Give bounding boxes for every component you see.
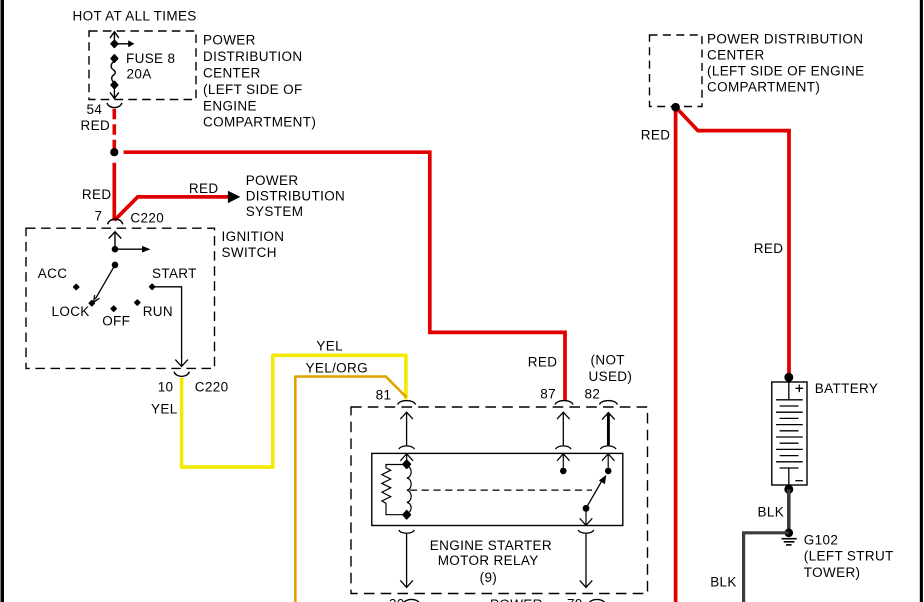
node: red junction dot — [110, 148, 118, 156]
svg-text:POWER DISTRIBUTION: POWER DISTRIBUTION — [707, 31, 863, 46]
svg-text:YEL/ORG: YEL/ORG — [306, 360, 368, 375]
wire: ignition branch arrow right — [115, 246, 150, 253]
svg-text:POWER: POWER — [203, 33, 256, 48]
svg-text:COMPARTMENT): COMPARTMENT) — [203, 115, 316, 130]
node: contact 82 dot — [605, 468, 612, 475]
node: contact 87 dot — [560, 468, 567, 475]
wire: ignition input stem with up arrow — [109, 232, 122, 249]
battery plates — [776, 400, 803, 468]
battery negative stub and minus sign — [789, 468, 803, 485]
svg-text:HOT AT ALL TIMES: HOT AT ALL TIMES — [73, 9, 197, 24]
svg-text:(LEFT SIDE OF: (LEFT SIDE OF — [203, 82, 303, 97]
wire: red main run to relay pin 87 — [124, 152, 565, 400]
wire: BLK branch to left and down — [744, 533, 789, 602]
connector 10 C220 (cup) — [174, 372, 189, 377]
pin 79 stem with down arrow — [580, 534, 593, 588]
contact OFF — [111, 306, 116, 311]
svg-text:54: 54 — [87, 102, 103, 117]
power distribution center box (right) — [650, 35, 703, 107]
pin 81 case terminal (flat hat) — [399, 446, 414, 449]
svg-text:30: 30 — [389, 597, 405, 602]
wire: branch arrow right inside PDC — [114, 40, 134, 47]
label POWER DISTRIBUTION CENTER (LEFT SIDE OF ENGINE COMPARTMENT) right — [707, 31, 865, 94]
relay coil (zigzag left + humps right) — [382, 465, 411, 515]
connector C220 (hat) — [108, 219, 123, 224]
pin 82 case terminal (flat hat) — [601, 446, 616, 449]
node: switch arm pivot dot — [583, 505, 590, 512]
connector hat pin 82 (not used) — [600, 401, 618, 405]
svg-text:10: 10 — [158, 379, 174, 394]
svg-text:RED: RED — [528, 354, 558, 369]
contact 87 stem with up arrow — [557, 454, 570, 468]
svg-text:TOWER): TOWER) — [804, 565, 861, 580]
contact RUN — [135, 300, 140, 305]
svg-text:CENTER: CENTER — [707, 47, 765, 62]
wire: YEL from ignition to relay pin 81 — [182, 355, 406, 467]
wire: BLK battery to ground — [787, 489, 791, 530]
svg-text:(9): (9) — [480, 570, 498, 585]
ignition switch box — [26, 228, 215, 368]
label ENGINE STARTER MOTOR RELAY (9) — [430, 538, 552, 585]
svg-text:7: 7 — [95, 208, 103, 223]
svg-text:MOTOR RELAY: MOTOR RELAY — [438, 553, 539, 568]
switch wiper arm to LOCK — [94, 265, 115, 302]
svg-text:BATTERY: BATTERY — [815, 381, 878, 396]
svg-text:IGNITION: IGNITION — [222, 229, 285, 244]
label POWER DISTRIBUTION CENTER (LEFT SIDE OF ENGINE COMPARTMENT) — [203, 33, 316, 130]
svg-text:G102: G102 — [804, 533, 838, 548]
svg-text:(NOT: (NOT — [591, 352, 625, 367]
wire: YEL/ORG to relay pin 81 — [295, 377, 406, 602]
pin 30 stem with down arrow — [400, 534, 413, 588]
connector hat pin 81 — [398, 401, 416, 405]
svg-text:CENTER: CENTER — [203, 66, 261, 81]
svg-text:79: 79 — [567, 597, 583, 602]
wire: START contact to connector 10 with down arrow — [152, 287, 188, 367]
svg-text:DISTRIBUTION: DISTRIBUTION — [246, 189, 345, 204]
contact 82 stem with up arrow — [602, 454, 615, 468]
svg-text:87: 87 — [540, 386, 556, 401]
connector hat pin 87 — [555, 401, 573, 405]
pin 82 external stem with up arrow (bold) — [602, 413, 615, 446]
wire: red branch to battery — [676, 107, 789, 377]
wire: red feed down left side — [674, 107, 678, 602]
label FUSE 8 / 20A — [126, 51, 175, 82]
svg-text:DISTRIBUTION: DISTRIBUTION — [203, 49, 302, 64]
svg-text:ENGINE: ENGINE — [203, 98, 257, 113]
svg-text:RED: RED — [641, 127, 671, 142]
connector hat pin 30 (cut off) — [404, 599, 420, 602]
svg-text:POWER: POWER — [246, 173, 299, 188]
svg-text:BLK: BLK — [758, 505, 785, 520]
switch arm with arrowhead — [586, 475, 606, 508]
linkage dashed line coil to switch — [410, 489, 592, 491]
node: ground junction dot — [785, 529, 794, 538]
node: coil bottom diamond — [403, 511, 410, 519]
svg-text:C220: C220 — [195, 379, 229, 394]
svg-text:COMPARTMENT): COMPARTMENT) — [707, 79, 820, 94]
svg-text:LOCK: LOCK — [52, 304, 90, 319]
svg-text:START: START — [152, 266, 197, 281]
coil pin arrow (inside box) — [400, 454, 413, 461]
svg-text:POWER: POWER — [490, 597, 543, 602]
pin 81 external stem with up arrow — [400, 412, 413, 445]
contact START — [149, 284, 154, 289]
svg-text:YEL: YEL — [151, 402, 178, 417]
contact ACC — [74, 284, 79, 289]
svg-text:OFF: OFF — [102, 314, 130, 329]
svg-text:RUN: RUN — [143, 304, 173, 319]
node: junction dot at PDC output — [671, 103, 680, 112]
svg-text:SYSTEM: SYSTEM — [246, 204, 304, 219]
pin 87 external stem with up arrow — [557, 412, 570, 445]
wire: red down to ignition connector 7 — [112, 163, 116, 221]
label IGNITION SWITCH — [222, 229, 285, 260]
svg-text:(LEFT SIDE OF ENGINE: (LEFT SIDE OF ENGINE — [707, 63, 865, 78]
label G102 (LEFT STRUT TOWER) — [804, 533, 894, 580]
node: ignition junction dot upper — [112, 246, 119, 253]
pin 87 case terminal (flat hat) — [556, 446, 571, 449]
node: junction diamond above fuse — [111, 55, 118, 62]
wire: red branch to power distribution system — [115, 191, 241, 221]
svg-text:C220: C220 — [130, 210, 164, 225]
label (NOT USED) — [589, 352, 633, 384]
switch common stem with down arrow — [580, 508, 593, 525]
svg-text:ENGINE STARTER: ENGINE STARTER — [430, 538, 552, 553]
svg-text:(LEFT STRUT: (LEFT STRUT — [804, 549, 894, 564]
svg-text:RED: RED — [82, 187, 112, 202]
fuse 8 element (S-curve) — [111, 61, 115, 82]
svg-text:RED: RED — [81, 118, 111, 133]
svg-text:SWITCH: SWITCH — [222, 245, 277, 260]
wire: fuse output stem with down arrow — [110, 85, 119, 99]
svg-text:20A: 20A — [127, 66, 152, 81]
pin 30 case terminal (cup below box) — [399, 530, 414, 533]
node: battery positive terminal dot — [784, 373, 793, 382]
svg-text:RED: RED — [189, 181, 219, 196]
node: coil top diamond — [403, 460, 410, 468]
svg-text:82: 82 — [585, 386, 601, 401]
svg-text:ACC: ACC — [38, 266, 68, 281]
svg-text:FUSE 8: FUSE 8 — [126, 51, 175, 66]
wire: fuse feed stem with up arrow — [110, 32, 119, 44]
node: ignition junction dot lower — [112, 262, 119, 269]
svg-text:RED: RED — [754, 241, 784, 256]
svg-text:81: 81 — [376, 387, 392, 402]
power distribution center box (left) — [89, 31, 196, 100]
svg-text:BLK: BLK — [710, 574, 737, 589]
connector hat pin 79 (cut off) — [589, 599, 605, 602]
engine starter motor relay dashed box — [351, 407, 648, 594]
relay inner case box — [372, 453, 623, 525]
battery box — [772, 382, 807, 485]
connector 54 (cup) — [107, 103, 122, 108]
label POWER DISTRIBUTION SYSTEM — [246, 173, 345, 219]
node: junction diamond below fuse — [111, 81, 118, 88]
battery positive stub and plus sign — [789, 382, 803, 400]
ground symbol G102 — [782, 539, 797, 545]
svg-text:USED): USED) — [589, 369, 633, 384]
fusible link: RED dashed wire — [113, 109, 117, 151]
svg-text:YEL: YEL — [316, 338, 343, 353]
node: junction diamond top of fuse — [111, 40, 118, 47]
contact LOCK — [89, 301, 94, 306]
node: battery negative terminal dot — [784, 485, 793, 494]
pin 79 case terminal (cup below box) — [578, 530, 593, 533]
